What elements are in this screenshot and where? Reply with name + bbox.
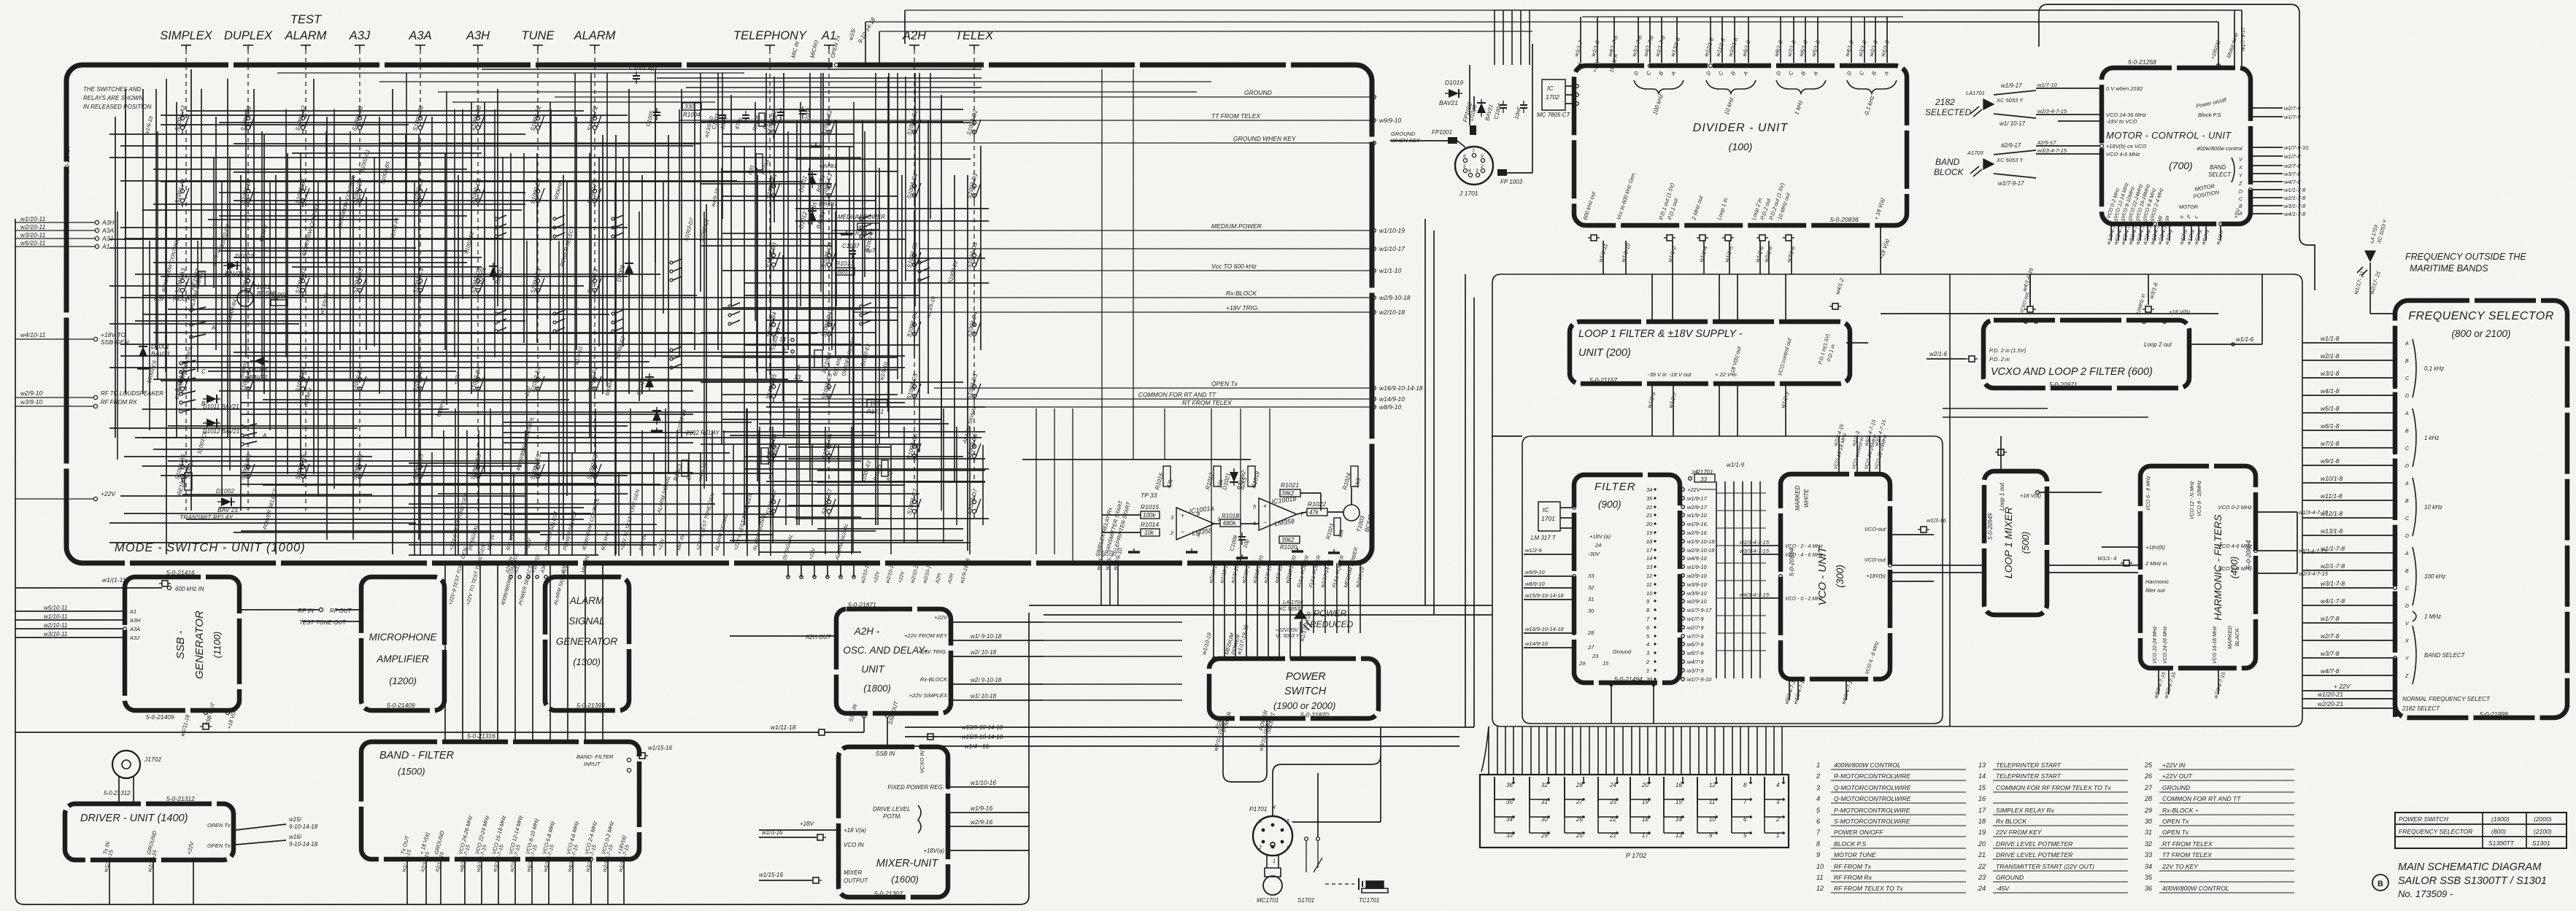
node motor bot 13 bbox=[2219, 222, 2223, 226]
wire exit unnamed bbox=[919, 248, 1372, 249]
svg-text:3: 3 bbox=[1476, 168, 1478, 174]
wire mesh v mid bbox=[717, 73, 719, 350]
wire TUNE column tick stem bbox=[537, 45, 539, 50]
wire p1702 pin 22 vert bbox=[1597, 777, 1599, 817]
wire p1702 riser 24 bbox=[1689, 726, 1691, 775]
wire drop band 1 bbox=[462, 563, 463, 742]
wire opamp3 bbox=[1214, 523, 1220, 524]
svg-text:2182: 2182 bbox=[1935, 97, 1955, 107]
unit MIXER-UNIT (1600) outline bbox=[838, 747, 948, 897]
svg-text:820: 820 bbox=[838, 268, 848, 275]
connector P1701 pin 3 bbox=[1262, 829, 1265, 832]
node divider top 6 bbox=[1675, 64, 1679, 68]
node freq w6/1-8 bbox=[2394, 429, 2397, 433]
node divider top 8 bbox=[1721, 64, 1724, 68]
wire opamp1 bbox=[1102, 514, 1141, 516]
wire A2H dashed column bbox=[914, 50, 915, 481]
connector P1702 pin 2 dot bbox=[1782, 815, 1785, 818]
svg-text:22: 22 bbox=[1978, 863, 1986, 870]
node ssb A3J bbox=[123, 636, 127, 640]
wire p1702 riser 33 bbox=[1765, 726, 1767, 775]
wire vcxo out up bbox=[2029, 296, 2031, 305]
switch S1002-C1 bbox=[418, 185, 427, 207]
node divider top 7 bbox=[1709, 64, 1713, 68]
svg-text:Rx BLOCK: Rx BLOCK bbox=[1996, 818, 2027, 825]
connector P1702 pin 20 dot bbox=[1648, 781, 1651, 784]
wire top right bus2 bbox=[879, 31, 1532, 32]
svg-text:w1/1-10: w1/1-10 bbox=[1379, 267, 1402, 274]
wire mesh h bbox=[153, 379, 788, 380]
svg-text:330: 330 bbox=[685, 104, 695, 110]
wire bf VCO 6-8 MHz bbox=[548, 861, 549, 904]
svg-text:w9/1-8: w9/1-8 bbox=[2321, 457, 2340, 465]
switch S1701 arm a bbox=[1306, 841, 1307, 872]
svg-text:w1/1-7-8: w1/1-7-8 bbox=[2321, 545, 2345, 552]
ground 2182 bbox=[651, 427, 663, 431]
wire mesh v bbox=[681, 89, 682, 438]
svg-text:A2H OUT: A2H OUT bbox=[805, 634, 832, 640]
svg-text:A: A bbox=[2405, 341, 2409, 346]
tick freq border 12 bbox=[2393, 529, 2397, 537]
connector P1702 pin 15 dot bbox=[1681, 798, 1684, 801]
svg-text:BLOCK: BLOCK bbox=[1934, 167, 1964, 177]
svg-text:w3/1-8: w3/1-8 bbox=[2321, 370, 2340, 377]
unit POWER SWITCH outline bbox=[1209, 659, 1378, 718]
node filter left 868 bbox=[1573, 632, 1576, 635]
wire divider top pin 6 bbox=[1676, 17, 1678, 63]
wire p1702 pin 6 lead bbox=[1732, 816, 1749, 818]
node loopf -30 V in bbox=[1651, 382, 1654, 386]
node bf + 18 V(a) bbox=[425, 858, 428, 861]
svg-text:A1: A1 bbox=[101, 243, 110, 250]
svg-text:Harmonic: Harmonic bbox=[2145, 578, 2169, 585]
svg-text:VCO 24-36 MHz: VCO 24-36 MHz bbox=[2106, 112, 2146, 118]
wire harm right 786 bbox=[2258, 573, 2297, 574]
wire mesh v bbox=[523, 153, 525, 343]
svg-text:w3/1-7-8: w3/1-7-8 bbox=[2284, 203, 2306, 209]
wire motor bot 4 bbox=[2140, 226, 2141, 241]
wire mixer out bbox=[759, 880, 811, 881]
svg-text:23: 23 bbox=[1978, 874, 1986, 881]
switch S1003-C6 bbox=[912, 440, 921, 462]
node ssb A3H bbox=[123, 619, 127, 622]
node divider top 11 bbox=[1779, 64, 1783, 68]
svg-text:w4/1-7-8: w4/1-7-8 bbox=[2284, 211, 2306, 217]
wire mesh h bbox=[219, 250, 467, 252]
wire motor bot 10 bbox=[2191, 226, 2192, 241]
node exit unnamed bbox=[1373, 247, 1376, 251]
wire p1702 riser 31 bbox=[1748, 726, 1749, 775]
svg-text:+ 22V: + 22V bbox=[2334, 683, 2351, 690]
wire mesh v bbox=[352, 175, 354, 540]
node freq w11/1-8 bbox=[2394, 499, 2397, 503]
svg-text:IC: IC bbox=[1543, 506, 1549, 513]
node MIC IN bbox=[795, 63, 798, 66]
node filter w 17 bbox=[1681, 635, 1685, 638]
switch S1003-C1 bbox=[912, 179, 921, 202]
wire p1702 pin 27 vert bbox=[1564, 777, 1565, 799]
node mic pin 4 bbox=[544, 575, 547, 578]
tick freq border 14 bbox=[2393, 562, 2397, 570]
wire mixer FIXED POWER REG. bbox=[950, 786, 1029, 788]
wire drop alarm 4 bbox=[840, 563, 841, 577]
node ic1701 696 bbox=[1573, 506, 1576, 510]
wire p1702 pin 9 vert bbox=[1697, 777, 1698, 833]
wire led drop bbox=[1300, 621, 1301, 659]
svg-text:J 1701: J 1701 bbox=[1459, 190, 1478, 197]
node alarm pin 1 bbox=[800, 575, 803, 578]
svg-text:TRANSMITTER START (22V OUT): TRANSMITTER START (22V OUT) bbox=[1996, 863, 2094, 870]
node exit GROUND bbox=[1373, 96, 1376, 99]
wire mesh v bbox=[655, 69, 656, 263]
wire p1701 up bbox=[1380, 726, 1381, 822]
wire motor right 227 bbox=[2253, 165, 2283, 166]
node divider bot 2339 bbox=[1705, 224, 1709, 228]
wire filter w 10 bbox=[1716, 575, 1717, 576]
wire ic1701 pin 696 bbox=[1560, 507, 1572, 508]
svg-text:VCO 4-6 MHz: VCO 4-6 MHz bbox=[2106, 151, 2140, 158]
wire contact A1 bbox=[193, 322, 206, 325]
wire divider top pin 1 bbox=[1597, 17, 1598, 63]
wire stub RF FROM RX bbox=[15, 406, 93, 407]
connector P1702 pin 25 dot bbox=[1582, 831, 1585, 834]
switch S1002-B2 bbox=[358, 112, 366, 134]
wire bf VCO 24-26 MHz bbox=[464, 861, 466, 904]
svg-text:w15/: w15/ bbox=[289, 816, 302, 823]
key TC1701 body bbox=[1366, 881, 1384, 888]
wire p1702 riser 6 bbox=[1538, 726, 1540, 775]
unit DRIVER-UNIT (1400) outline bbox=[65, 804, 234, 860]
wire motor top2 bbox=[2234, 10, 2235, 66]
node filter w 7 bbox=[1681, 548, 1685, 552]
node alarm pin 5 bbox=[852, 575, 855, 578]
svg-text:(800): (800) bbox=[2491, 828, 2506, 835]
wire divider top pin 11 bbox=[1780, 17, 1781, 63]
wire p1702 riser 15 bbox=[1613, 726, 1615, 775]
wire mesh h bbox=[219, 507, 584, 508]
svg-text:POWER: POWER bbox=[1286, 671, 1326, 683]
connector J1701 pin 6 bbox=[1463, 158, 1467, 162]
svg-text:9: 9 bbox=[1481, 154, 1484, 159]
svg-text:VCXO AND LOOP 2 FILTER (6: VCXO AND LOOP 2 FILTER (600) bbox=[1991, 366, 2153, 378]
wire p1702 pin 34 lead bbox=[1495, 816, 1512, 818]
svg-text:TT FROM TELEX: TT FROM TELEX bbox=[2162, 851, 2212, 858]
node divider top 16 bbox=[1863, 64, 1867, 68]
svg-text:6: 6 bbox=[1816, 818, 1820, 825]
svg-text:COMMON FOR RT AND TT: COMMON FOR RT AND TT bbox=[2162, 795, 2241, 802]
node freq sel top bbox=[2394, 312, 2397, 316]
node filter left 822 bbox=[1573, 598, 1576, 602]
wire mesh v bbox=[142, 89, 144, 394]
wire divider top pin 13 bbox=[1805, 17, 1806, 63]
switch S1701 contact b bbox=[1316, 837, 1320, 841]
node filter col 10 bbox=[1654, 592, 1656, 594]
svg-text:w2/1-8: w2/1-8 bbox=[2321, 352, 2340, 360]
node loop1 top bbox=[2000, 470, 2003, 473]
wire mesh h bbox=[120, 145, 693, 147]
svg-text:w1/7-9: w1/7-9 bbox=[2284, 114, 2301, 120]
connector P1702 pin 17 dot bbox=[1648, 831, 1651, 834]
svg-text:5-0-21409: 5-0-21409 bbox=[387, 702, 415, 709]
svg-text:TEST: TEST bbox=[290, 13, 323, 26]
wire mesh v bbox=[115, 117, 116, 438]
wire p1702 riser 0 bbox=[1488, 726, 1489, 775]
wire freq +22V bbox=[2302, 690, 2393, 691]
node SSB OUT bbox=[204, 710, 207, 714]
node contact B1 bbox=[180, 401, 182, 404]
wire mesh v mid bbox=[928, 120, 929, 394]
diode D1003 BAV21 bbox=[223, 261, 241, 270]
node motor left 140 bbox=[2100, 101, 2104, 104]
wire motor right 214 bbox=[2253, 155, 2283, 157]
svg-text:TELEPHONY: TELEPHONY bbox=[733, 29, 807, 42]
svg-text:w1/1-8: w1/1-8 bbox=[2321, 335, 2340, 342]
wire divider top pin 3 bbox=[1638, 17, 1639, 63]
node freq w1/1-8 bbox=[2394, 341, 2397, 345]
wire vco right 733 bbox=[1892, 534, 1934, 535]
node filter w 22 bbox=[1681, 678, 1685, 681]
wire mesh v bbox=[602, 135, 603, 394]
wire p1702 riser 7 bbox=[1546, 726, 1548, 775]
wire test tone bbox=[302, 621, 359, 622]
connector P1701 pin 4 bbox=[1271, 823, 1275, 827]
capacitor C1004 bbox=[1500, 101, 1507, 113]
svg-text:+22V FROM KEY: +22V FROM KEY bbox=[904, 632, 948, 639]
svg-text:TUNE: TUNE bbox=[522, 29, 555, 42]
tick freq border 10 bbox=[2393, 496, 2397, 504]
wire mesh v mid bbox=[796, 120, 798, 525]
wire exit GROUND bbox=[555, 96, 1372, 98]
wire p1702 pin 5 lead bbox=[1732, 832, 1749, 834]
switch S1002-C4 bbox=[418, 373, 427, 395]
svg-text:w1/9-10: w1/9-10 bbox=[1687, 512, 1708, 519]
svg-text:BAND: BAND bbox=[1935, 157, 1960, 167]
wire TELEPHONY column tick bbox=[765, 44, 775, 46]
svg-text:680k: 680k bbox=[1223, 520, 1236, 527]
svg-text:35: 35 bbox=[1646, 495, 1653, 502]
wire divider top pin 14 bbox=[1817, 17, 1819, 63]
wire a2h Rx-BLOCK bbox=[953, 683, 1044, 685]
wire freq sel top link bbox=[2370, 313, 2393, 314]
switch S1003-B4 bbox=[771, 318, 780, 341]
svg-text:35: 35 bbox=[2145, 874, 2153, 881]
wire mesh v bbox=[253, 89, 255, 438]
relay RE1004 bbox=[814, 350, 822, 368]
svg-text:24: 24 bbox=[1609, 782, 1616, 788]
node RF TO LOUDSPEAKER bbox=[93, 395, 97, 399]
node ps medium bbox=[1230, 656, 1233, 660]
diode D1008 BAV21 bbox=[625, 260, 633, 277]
wire p1702 riser 10 bbox=[1572, 726, 1573, 775]
ground R1006 bbox=[841, 230, 852, 234]
svg-text:+18V TO: +18V TO bbox=[101, 331, 126, 338]
svg-text:+18V (a): +18V (a) bbox=[1589, 533, 1611, 540]
wire p1702 riser 12 bbox=[1589, 726, 1590, 775]
svg-text:6: 6 bbox=[1463, 154, 1466, 159]
wire divider w w1/1-5 bbox=[1729, 241, 1730, 274]
node contact A1 bbox=[190, 323, 193, 326]
node vco left 820 bbox=[1779, 597, 1783, 600]
node filter col 9 bbox=[1654, 600, 1656, 602]
svg-text:5-0-21393: 5-0-21393 bbox=[576, 702, 605, 709]
switch S1001-A5 bbox=[180, 460, 189, 483]
svg-text:18k: 18k bbox=[270, 295, 279, 302]
svg-text:w9/9-10: w9/9-10 bbox=[1525, 569, 1546, 575]
switch S1002-C3 bbox=[418, 274, 427, 297]
node a2h +22V FROM KEY bbox=[949, 638, 952, 642]
capacitor C1003 bbox=[719, 111, 726, 123]
switch S1003-C5 bbox=[827, 380, 836, 403]
wire p1702 riser 17 bbox=[1631, 726, 1632, 775]
wire filter left 822 bbox=[1524, 599, 1572, 600]
wire p1702 pin 29 vert bbox=[1529, 777, 1530, 833]
svg-text:Rx-BLOCK: Rx-BLOCK bbox=[920, 676, 948, 683]
tick freq border 23 bbox=[2393, 709, 2397, 717]
switch S1001-A3 bbox=[180, 274, 189, 297]
svg-text:R1015: R1015 bbox=[1141, 503, 1159, 511]
svg-text:SELECTED: SELECTED bbox=[1925, 107, 1972, 117]
svg-text:19: 19 bbox=[1978, 829, 1986, 836]
node filter w 21 bbox=[1681, 669, 1685, 672]
switch S1002-F1 bbox=[593, 185, 601, 207]
node exit +18V TRIG. bbox=[1373, 311, 1376, 314]
wire mesh h bbox=[241, 484, 660, 485]
wire p1702 pin 10 vert bbox=[1697, 777, 1698, 817]
wire j1701 left2 bbox=[1457, 141, 1465, 147]
svg-text:27: 27 bbox=[2144, 784, 2153, 791]
wire p1701 top bbox=[1272, 773, 1273, 816]
resistor R1013 bbox=[836, 268, 855, 275]
wire filter left 760 bbox=[1524, 554, 1572, 555]
connector J1701 pin 7 bbox=[1472, 153, 1476, 157]
svg-text:w9/9-10: w9/9-10 bbox=[1379, 117, 1402, 124]
svg-text:w1/10-16: w1/10-16 bbox=[971, 779, 996, 786]
unit VCO-UNIT (300) outline bbox=[1781, 474, 1890, 679]
node filter w 12 bbox=[1681, 592, 1685, 595]
ground mic cluster bbox=[810, 143, 822, 147]
wire mesh v bbox=[366, 197, 367, 350]
wire mesh h bbox=[120, 495, 525, 497]
wire p1702 pin 2 lead bbox=[1765, 816, 1782, 818]
svg-text:w4/7-8: w4/7-8 bbox=[2284, 179, 2301, 185]
wire exit +18V TRIG. bbox=[854, 311, 1372, 313]
tick freq border 5 bbox=[2393, 414, 2397, 422]
wire filter w 9 bbox=[1716, 566, 1717, 567]
node motor bot 9 bbox=[2183, 222, 2186, 226]
svg-text:A3J: A3J bbox=[129, 635, 139, 641]
node exit RT FROM TELEX bbox=[1373, 406, 1376, 409]
node exit OPEN Tx bbox=[1373, 387, 1376, 390]
wire A3A dashed column bbox=[420, 50, 421, 511]
svg-text:28: 28 bbox=[2144, 795, 2152, 802]
wire mesh v mid bbox=[875, 175, 876, 525]
jumper w1/1-11 bbox=[159, 581, 171, 586]
svg-text:12: 12 bbox=[1646, 573, 1653, 579]
svg-text:FREQUENCY SELECTOR: FREQUENCY SELECTOR bbox=[2399, 828, 2472, 835]
wire motor bot 0 bbox=[2110, 226, 2112, 241]
svg-text:LOOP 1 MIXER: LOOP 1 MIXER bbox=[2002, 507, 2014, 578]
svg-text:4: 4 bbox=[1197, 532, 1200, 538]
svg-text:R1701: R1701 bbox=[1696, 469, 1713, 476]
wire top right bus1 bbox=[865, 21, 1868, 23]
wire mesh v bbox=[615, 135, 617, 554]
wire contact B1 bbox=[183, 400, 196, 403]
wire a2h +18V TRIG. bbox=[953, 656, 1044, 657]
svg-text:2 MHz in: 2 MHz in bbox=[2145, 560, 2167, 567]
wire motor bot 5 bbox=[2147, 226, 2148, 241]
node harm 18vb bbox=[2139, 546, 2143, 549]
brace freq BAND SELECT bbox=[2413, 626, 2416, 684]
svg-text:20: 20 bbox=[1641, 782, 1648, 788]
wire loopf VCO control out bbox=[1785, 386, 1786, 436]
LED LA1704 ray2 bbox=[1303, 624, 1309, 630]
wire 600kHz stub bbox=[15, 587, 162, 589]
wire mesh h bbox=[135, 320, 525, 322]
node TEST TONE OUT bbox=[359, 619, 363, 623]
resistor R1012 bbox=[756, 154, 763, 170]
wire p1702 pin 35 vert bbox=[1494, 777, 1495, 799]
svg-text:20: 20 bbox=[1978, 840, 1986, 848]
wire p1702 pin 21 vert bbox=[1597, 777, 1599, 833]
wire loop2 out bbox=[2191, 344, 2232, 345]
svg-text:C: C bbox=[201, 368, 206, 375]
svg-text:w3/9-10: w3/9-10 bbox=[1687, 581, 1708, 588]
unit A2H-OSC AND DELAY UNIT (1800) outline bbox=[836, 609, 951, 713]
svg-text:1 kHz: 1 kHz bbox=[2424, 435, 2439, 441]
switch S1003-C4 bbox=[827, 318, 836, 341]
node ic1702 130 bbox=[1576, 93, 1579, 97]
svg-text:26: 26 bbox=[2144, 772, 2152, 780]
svg-text:GENERATOR: GENERATOR bbox=[556, 636, 618, 647]
svg-text:MEDIUM POWER: MEDIUM POWER bbox=[1211, 222, 1262, 230]
svg-text:+22V: +22V bbox=[1687, 486, 1701, 493]
tick freq border 6 bbox=[2393, 430, 2397, 438]
node vco right 775 bbox=[1889, 564, 1892, 567]
wire freq w7/1-8 bbox=[2302, 447, 2393, 449]
svg-text:17: 17 bbox=[1646, 547, 1653, 554]
svg-text:1701: 1701 bbox=[1541, 515, 1555, 522]
ground opamp area bbox=[1292, 548, 1303, 551]
wire filter sub-boundary bbox=[1522, 436, 1943, 724]
svg-text:10k: 10k bbox=[1144, 530, 1154, 536]
node divider bot Loop 1 in bbox=[1722, 224, 1726, 228]
svg-text:R101B: R101B bbox=[1222, 513, 1240, 519]
svg-text:33: 33 bbox=[2145, 851, 2152, 858]
svg-text:FIXED POWER REG.: FIXED POWER REG. bbox=[887, 784, 944, 791]
svg-text:B: B bbox=[2239, 204, 2243, 209]
svg-text:LA 1704: LA 1704 bbox=[1283, 599, 1303, 605]
svg-text:w1/15-16: w1/15-16 bbox=[648, 745, 672, 751]
wire loop vco ctl bbox=[1846, 342, 1868, 344]
wire p1702 riser 13 bbox=[1597, 726, 1599, 775]
wire w16 run bbox=[905, 736, 1044, 737]
svg-text:C1007: C1007 bbox=[842, 243, 860, 249]
svg-text:w1/3-16: w1/3-16 bbox=[1927, 517, 1947, 524]
svg-text:VCO 6 - 8 MHz: VCO 6 - 8 MHz bbox=[2146, 476, 2151, 511]
wire drop alarm 5 bbox=[853, 563, 855, 577]
wire drop band 2 bbox=[479, 563, 481, 742]
connector P1701 pin 2 bbox=[1262, 840, 1265, 844]
node filter col 36 bbox=[1654, 678, 1656, 680]
wire p1702 pin 35 lead bbox=[1495, 799, 1512, 800]
brace freq 1 kHz bbox=[2413, 408, 2416, 467]
wire p1702 pin 36 vert bbox=[1513, 777, 1514, 781]
node filter col 6 bbox=[1654, 626, 1656, 628]
svg-text:1702: 1702 bbox=[1546, 93, 1559, 101]
wire motor right 160 bbox=[2253, 116, 2283, 117]
wire mesh v right bbox=[1211, 408, 1212, 563]
svg-text:w3/7-9: w3/7-9 bbox=[1687, 667, 1704, 674]
